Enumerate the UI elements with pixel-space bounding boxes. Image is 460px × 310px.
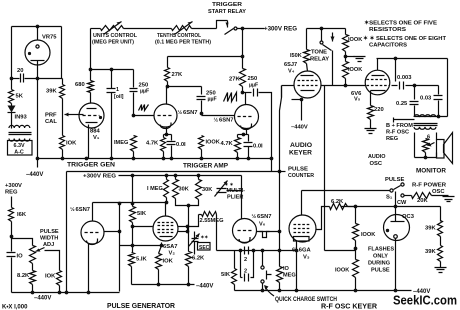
junction +300V REG node <box>241 27 245 31</box>
svg-text:IO: IO <box>17 254 24 260</box>
svg-text:CW: CW <box>397 200 407 206</box>
wire SEC bottom lead <box>194 242 196 255</box>
junction pulse counter tap <box>278 170 282 174</box>
wire y69 units rail to coupling <box>91 69 134 71</box>
wire 5.1K to bus D <box>131 267 133 285</box>
wire y56 feed <box>168 56 243 58</box>
svg-text:SeekIC.com: SeekIC.com <box>393 294 457 308</box>
junction bus A 0.01-2 <box>247 157 251 161</box>
resistor 150K <box>304 50 310 64</box>
junction bus C 8.2K <box>31 291 35 295</box>
tube VR75 envelope <box>25 40 50 65</box>
svg-text:µµF: µµF <box>249 83 258 89</box>
wire y203 trig gen plate line <box>93 202 167 204</box>
wire x355 down <box>355 207 357 224</box>
svg-text:6.2K: 6.2K <box>331 199 344 205</box>
wire switch top lead <box>262 251 264 266</box>
capacitor 2 second <box>245 274 249 282</box>
wire V5 cathode down <box>370 91 372 106</box>
svg-text:IOK: IOK <box>45 274 56 280</box>
wire rail x37 down to -440V bus <box>37 79 39 159</box>
diode 1N93 <box>8 106 16 113</box>
svg-text:2: 2 <box>244 269 247 275</box>
B+ tap line <box>394 118 415 123</box>
switch quick-charge actuator <box>267 271 272 280</box>
junction bus A oil cap <box>110 157 114 161</box>
wire OC3 cathode down <box>395 239 397 291</box>
junction bus A left end <box>36 157 40 161</box>
speaker MONITOR <box>437 140 445 159</box>
svg-text:0.0I: 0.0I <box>176 142 186 148</box>
wire regulated node y78 <box>25 78 63 80</box>
svg-text:1: 1 <box>116 87 119 93</box>
capacitor 10 <box>7 253 16 257</box>
svg-text:R-F POWER: R-F POWER <box>412 183 447 189</box>
junction y245 x132 <box>131 244 135 248</box>
junction bus C 10K <box>58 291 62 295</box>
wire 0.25 down <box>414 106 416 117</box>
junction V2 right y231 <box>186 230 190 234</box>
svg-text:START RELAY: START RELAY <box>208 9 246 15</box>
svg-text:2.55MEG: 2.55MEG <box>200 218 224 224</box>
resistor 4.7K no2 <box>235 138 241 153</box>
waveform icon sawtooth large <box>224 93 237 102</box>
svg-text:30K: 30K <box>202 187 212 193</box>
svg-text:ADJ: ADJ <box>43 242 54 248</box>
wire y85 right <box>415 85 439 87</box>
wire V4 plate to 150K <box>307 64 308 72</box>
wire x11 to 10cap <box>11 237 13 252</box>
switch S1 arm <box>394 186 401 190</box>
tube 884 V1 envelope <box>79 103 104 128</box>
junction bus E switch <box>261 289 265 293</box>
wire to 0.01 no2 <box>248 135 250 142</box>
tube VR75 anode pin <box>36 45 39 48</box>
tube OC3 envelope <box>384 215 410 241</box>
svg-text:IOOK: IOOK <box>348 37 362 43</box>
wire coupling to grid-leak rail x271 <box>259 93 272 172</box>
wire y245 <box>120 245 162 247</box>
wire y206 right down <box>440 207 442 222</box>
wire to 5K <box>11 79 13 90</box>
wire relay contact down to grid line <box>332 51 334 86</box>
junction x11 y236 <box>10 235 14 239</box>
wire branch lead <box>241 277 243 279</box>
wire 51K keyer top <box>234 251 236 269</box>
switch S1 throw CW <box>401 194 404 197</box>
wire between 39Ks <box>440 237 442 246</box>
svg-text:½: ½ <box>252 213 257 220</box>
wire 1MEG to node y202 <box>166 198 168 203</box>
tube 6SJ7 V4 envelope <box>294 71 321 98</box>
wire y28 tone relay <box>307 28 346 30</box>
tube OC3 plate bar <box>391 221 405 223</box>
junction bus C rail <box>65 291 69 295</box>
resistor 100K osc keyer 2 <box>353 260 359 278</box>
wire top rail left segment <box>91 28 101 30</box>
resistor 4.7K no1 <box>161 138 166 152</box>
wire y191 to S1 <box>302 190 391 192</box>
svg-text:VR75: VR75 <box>42 35 57 41</box>
wire audio keyer right rail x324 <box>324 86 326 251</box>
wire 51K bottom <box>132 223 134 227</box>
svg-text:27K: 27K <box>229 77 240 83</box>
wire pulse gen left rail x66 <box>66 172 68 293</box>
relay tone pivot contact <box>320 41 323 44</box>
wire VR75 cathode lead <box>37 61 39 79</box>
wire tenths to relay <box>192 28 217 30</box>
wire grid to tube V half-6SN7 no1 <box>134 115 155 117</box>
relay K1 frame wire <box>217 21 228 29</box>
svg-text:+300V: +300V <box>5 183 22 189</box>
wire V3 plate up to y191 <box>301 191 303 215</box>
wire T2 sec right lead <box>436 133 438 140</box>
wire bus E <box>235 290 412 292</box>
svg-text:A-C: A-C <box>14 150 24 156</box>
capacitor 0.01 no2 <box>244 143 253 147</box>
svg-text:0.0I: 0.0I <box>253 144 263 150</box>
wire 100K2 to bus E <box>355 278 357 291</box>
ground under 39K pair <box>435 268 447 273</box>
wire 20uF left <box>12 78 20 80</box>
wire to coupling cap <box>243 92 252 94</box>
wire 27K to plate node <box>242 87 244 93</box>
svg-text:R-F OSC: R-F OSC <box>386 130 409 136</box>
wire switch bottom lead <box>262 284 264 291</box>
wire busB col down x132 <box>132 176 134 204</box>
svg-text:UNITS CONTROL: UNITS CONTROL <box>93 33 138 39</box>
tube V6 grid dashes <box>238 230 253 232</box>
tube 884 cathode bar <box>86 122 98 124</box>
tube V2 cathode bar <box>160 236 173 238</box>
wire cathode 2 down <box>246 129 248 135</box>
svg-text:R-F OSC KEYER: R-F OSC KEYER <box>321 302 378 310</box>
svg-text:V₆: V₆ <box>259 222 266 228</box>
svg-text:IOOK: IOOK <box>206 140 220 146</box>
svg-text:–440V: –440V <box>34 296 51 302</box>
relay K1 moving contact <box>225 29 234 35</box>
wire 10Kv2 to bus D <box>158 270 160 285</box>
junction y203 x132 <box>131 202 135 206</box>
resistor 51K <box>130 207 136 223</box>
wire tg grid to x119 <box>104 231 120 233</box>
svg-text:IOOK: IOOK <box>361 232 375 238</box>
svg-text:–440V: –440V <box>196 284 213 290</box>
wire 100K1 to gnd node <box>345 52 347 57</box>
switch S1 pivot contact <box>390 189 393 192</box>
svg-text:ONLY: ONLY <box>373 254 388 260</box>
junction x355 y248 <box>354 247 358 251</box>
resistor 10K V2 <box>156 254 162 270</box>
svg-text:680: 680 <box>75 82 85 88</box>
junction bus A 1MEG-in <box>132 157 136 161</box>
svg-text:MONITOR: MONITOR <box>416 168 446 175</box>
junction x111 y69 <box>110 68 114 72</box>
svg-text:39K: 39K <box>425 226 436 232</box>
svg-text:½: ½ <box>214 117 219 124</box>
wire bus B right end down to V6 plate <box>241 176 243 206</box>
svg-text:OSC: OSC <box>432 189 445 195</box>
wire 5K to 1N93 <box>11 104 13 106</box>
wire V2 cathode <box>161 243 163 246</box>
junction V plate node x242 <box>241 91 245 95</box>
transformer T1 primary winding <box>9 125 30 128</box>
junction bus B 1MEG <box>165 174 169 178</box>
svg-text:SEC: SEC <box>199 245 210 251</box>
tube V4 grids <box>298 81 318 86</box>
wire to 2.55MEG left <box>188 215 199 227</box>
capacitor 0.003 <box>400 82 404 90</box>
wire y58 plate line <box>377 58 448 60</box>
wire cap2 to grid node 2 <box>201 101 203 114</box>
variable capacitor SEC <box>192 239 199 242</box>
wire grid to tube no2 <box>202 115 235 117</box>
wire +300 to 150K <box>306 29 308 50</box>
junction bus A grid-leak <box>270 157 274 161</box>
svg-text:WIDTH: WIDTH <box>40 236 58 242</box>
junction bus E 10MEG <box>278 289 282 293</box>
wire x324 to 100K node <box>325 250 356 252</box>
tube 6SN7 V6 envelope <box>233 219 257 243</box>
switch S1 throw PULSE <box>401 183 404 186</box>
svg-text:✶ ✶ SELECTS ONE OF EIGHT: ✶ ✶ SELECTS ONE OF EIGHT <box>363 35 446 42</box>
svg-text:DURING: DURING <box>368 261 390 267</box>
junction bus B 51K col <box>131 174 135 178</box>
wire 30K2 bottom <box>189 200 199 206</box>
junction bus D 6.2K <box>187 283 191 287</box>
monitor pot arrow <box>429 143 435 146</box>
junction y251 x240 <box>239 249 243 253</box>
wire busB to 1MEG <box>166 176 168 180</box>
svg-text:0.003: 0.003 <box>397 75 412 81</box>
transformer T2 primary <box>414 115 436 117</box>
junction bus A 10K <box>61 157 65 161</box>
tube V2 grids <box>158 223 175 233</box>
wire VR75 left rail <box>11 27 13 79</box>
svg-text:TRIGGER: TRIGGER <box>212 2 242 8</box>
resistor 39K second <box>438 246 443 262</box>
svg-text:5.IK: 5.IK <box>136 257 147 263</box>
svg-text:I50K: I50K <box>290 53 302 59</box>
tube V4 plate bar <box>301 75 314 77</box>
wire cap2 branch right <box>251 251 254 278</box>
svg-text:8.2K: 8.2K <box>17 273 30 279</box>
wire node to 680 <box>90 70 92 81</box>
wire to 10K v2 <box>159 246 162 254</box>
svg-text:6SJ7: 6SJ7 <box>284 62 297 68</box>
resistor 2.55MEG <box>202 212 217 217</box>
tube 6L6GA V3 envelope <box>289 215 316 242</box>
svg-text:+300V REG: +300V REG <box>83 174 117 180</box>
svg-text:6SA7: 6SA7 <box>163 244 178 250</box>
wire right rail x447 <box>447 59 449 117</box>
wire 30K junction to V2 <box>188 206 190 232</box>
svg-text:TRIGGER AMP: TRIGGER AMP <box>183 163 229 170</box>
junction y251 x262 <box>261 249 265 253</box>
svg-text:39K: 39K <box>46 89 57 95</box>
resistor 100K osc keyer 1 <box>353 224 359 241</box>
svg-text:6SN7: 6SN7 <box>76 207 91 213</box>
transformer T2 core <box>414 123 438 125</box>
junction x279 y232 <box>278 230 282 234</box>
junction gnd node <box>344 55 348 59</box>
transformer T1 secondary winding <box>9 139 30 142</box>
wire to 0.01 no1 <box>171 135 173 141</box>
svg-text:½: ½ <box>178 109 183 116</box>
svg-text:IO: IO <box>283 266 290 272</box>
svg-text:RELAY: RELAY <box>310 57 329 63</box>
junction 1MEG bottom / V2 plate <box>165 201 169 205</box>
resistor 10MEG <box>277 267 283 283</box>
junction y251 x279 <box>278 249 282 253</box>
resistor 16K <box>9 208 14 222</box>
svg-text:PULSE: PULSE <box>40 229 59 235</box>
wire node to 100K2 <box>355 249 357 260</box>
svg-text:✶ ✶: ✶ ✶ <box>225 182 234 187</box>
transformer T1 core <box>9 132 32 134</box>
tube V3 grids <box>294 225 311 233</box>
svg-text:PULSE: PULSE <box>371 268 390 274</box>
arrow quick charge pointer <box>265 287 274 297</box>
wire x133 down from y69 <box>133 70 135 88</box>
svg-text:30K: 30K <box>179 187 189 193</box>
wire pot to 8.2K <box>32 264 34 271</box>
variable capacitor MULTIPLIER <box>217 189 227 193</box>
svg-text:IMEG: IMEG <box>114 140 128 146</box>
junction y206 x355 <box>354 205 358 209</box>
junction y251 x253 <box>252 249 256 253</box>
capacitor 0.03 <box>434 96 443 100</box>
svg-text:IOK: IOK <box>163 259 174 265</box>
svg-text:2: 2 <box>244 257 247 263</box>
wire monitor bottom <box>415 157 437 159</box>
junction V4 cathode <box>300 98 304 102</box>
wire V3 cathode down <box>296 242 298 291</box>
resistor 39K first <box>438 221 443 237</box>
svg-text:TONE: TONE <box>311 50 327 56</box>
wire down to cap2 <box>201 87 203 95</box>
junction x90 y69 <box>89 68 93 72</box>
waveform icon negative pulse <box>260 232 270 238</box>
potentiometer TENTHS CONTROL <box>172 26 192 31</box>
wire cap2 branch left <box>240 251 242 278</box>
wire 220 to ground <box>370 120 372 129</box>
svg-text:6SN7: 6SN7 <box>219 118 234 124</box>
wire tie dots <box>187 227 189 232</box>
resistor 100K tone 1 <box>343 35 349 52</box>
junction x37 y78 <box>36 77 40 81</box>
tube trigger-gen cathode loop <box>87 239 98 245</box>
junction x438 y116 <box>437 115 441 119</box>
tube 6SN7-2 cathode loop <box>241 124 252 130</box>
svg-text:TRIGGER GEN: TRIGGER GEN <box>67 162 115 169</box>
wire to pulse width pot <box>12 237 33 246</box>
wire 4.7K1 to bus <box>163 152 165 159</box>
svg-text:PRF: PRF <box>45 113 57 119</box>
wire 0.003 to node <box>406 85 415 87</box>
tube 884 plate bar <box>87 108 97 110</box>
box SEC <box>198 243 211 251</box>
wire plate lead V no2 <box>245 93 247 105</box>
wire 1MEG-in to bus <box>133 152 135 159</box>
wire wiper stub <box>81 114 84 116</box>
junction y251 x296 <box>295 249 299 253</box>
wire x414 down to 0.25 <box>414 86 416 100</box>
svg-text:V₃: V₃ <box>303 255 310 261</box>
wire 0.01-1 to bus <box>171 146 173 159</box>
svg-text:B + FROM: B + FROM <box>386 123 413 129</box>
wire OC3 plate lead <box>395 207 397 222</box>
junction bus D 10K <box>157 283 161 287</box>
wire V5 plate side to cap <box>392 85 398 87</box>
wire -440V bus A <box>37 158 273 160</box>
svg-text:(0.1 MEG PER TENTH): (0.1 MEG PER TENTH) <box>155 40 211 46</box>
wire x242 down <box>242 29 244 69</box>
wire gnd node to 100K2 <box>345 57 347 62</box>
tube 6SN7 trigger-gen envelope <box>81 221 104 244</box>
svg-text:IOK: IOK <box>66 141 77 147</box>
wire V6 out to x279 <box>257 231 280 233</box>
tube VR75 cathode bar <box>31 60 45 62</box>
wire V4 to V5 grid line y85 <box>321 85 366 87</box>
svg-text:V₂: V₂ <box>169 251 176 257</box>
svg-text:KEYER: KEYER <box>289 150 312 157</box>
wire 10K to bus <box>62 150 64 159</box>
junction x132 y226 <box>131 225 135 229</box>
wire y78 to 39K <box>62 79 64 85</box>
wire 8.2K to bus C <box>32 285 34 293</box>
resistor 27K (first) <box>165 68 170 82</box>
tube 6V6 V5 envelope <box>365 70 390 95</box>
junction bus C cathode <box>87 291 91 295</box>
resistor 680 <box>88 81 94 93</box>
svg-text:µµF: µµF <box>208 97 217 103</box>
wire V5 plate up <box>377 59 379 71</box>
potentiometer UNITS arrow <box>104 22 122 35</box>
ground after 20K <box>443 197 455 202</box>
junction cathode node 2 <box>242 133 246 137</box>
wire SEC top lead <box>194 232 196 239</box>
resistor 1MEG input <box>131 136 137 152</box>
wire 16K down <box>11 222 13 237</box>
svg-text:IOOK: IOOK <box>348 67 362 73</box>
wire cap to grid node <box>133 93 135 116</box>
junction bus A 4.7K1 <box>162 157 166 161</box>
wire V2 g right 1 <box>178 226 188 228</box>
svg-text:39K: 39K <box>425 249 436 255</box>
wire V6 plate lead <box>241 206 243 220</box>
svg-text:½: ½ <box>70 206 75 213</box>
junction x242 y56 <box>241 55 245 59</box>
svg-text:I MEG: I MEG <box>147 186 163 192</box>
svg-text:4.7K: 4.7K <box>146 141 159 147</box>
svg-text:5IK: 5IK <box>137 211 147 217</box>
svg-text:–440V: –440V <box>291 125 308 131</box>
wire 100K1 down <box>355 241 357 249</box>
wire 10MEG to bus E <box>279 283 281 291</box>
wire relay to +300V node <box>237 28 265 30</box>
capacitor 250uuF coupling <box>254 89 258 97</box>
svg-text:5K: 5K <box>16 94 24 100</box>
wire x119 full column <box>119 204 121 292</box>
wire VR75 right rail <box>61 27 63 79</box>
wire cathode 1 down <box>166 128 168 135</box>
svg-text:+300V REG: +300V REG <box>264 27 297 33</box>
tube V5 cathode arc <box>371 90 386 92</box>
junction monitor bottom <box>424 156 428 160</box>
wire x281 join x279 column <box>280 86 282 172</box>
wire to 4.7K no1 <box>163 135 165 138</box>
